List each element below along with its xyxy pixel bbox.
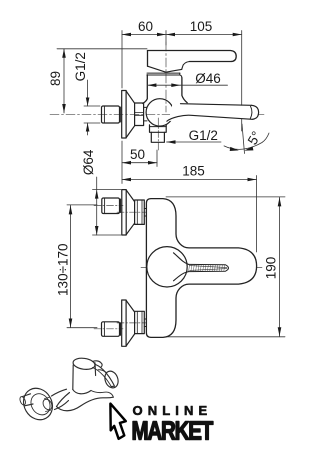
dim 185 [122,176,257,253]
sketch stub pipe [23,394,34,406]
svg-text:G1/2: G1/2 [189,128,218,143]
svg-text:Ø64: Ø64 [81,149,96,175]
collar top (side view) [147,72,180,74]
dim 60/105 dimension line [122,31,242,132]
spout (side view) white cover over ball right [168,104,257,122]
bottom hex nut (plan) [135,311,145,333]
centerline top pipe axis [94,205,123,207]
bottom outlet (side view) [150,125,167,133]
hex nut (side view) [135,103,144,126]
lever funnel and blade (plan) [174,253,189,265]
centerline plan view horizontal [141,266,263,268]
escutcheon cone (side view) [126,91,135,138]
centerline top inlet axis [117,211,154,213]
extension line wall plane [121,31,123,89]
dim 190 [166,197,285,337]
svg-text:190: 190 [264,257,279,280]
wall pipe (side view) [102,106,120,123]
dim 50 [122,141,157,184]
bottom escutcheon cone (plan) [126,300,135,346]
sketch body belly [73,390,91,394]
sketch spout sweep outer [57,397,114,411]
svg-text:G1/2: G1/2 [73,52,88,81]
dim Ø46 [147,84,227,86]
cylinder edges (side view) [143,75,148,104]
top hex nut (plan) [135,200,145,224]
sketch body cylinder top rim [72,357,95,371]
sketch lever blade top [96,365,115,387]
extension line aerator axis [241,31,243,132]
sketch lever base knob [93,361,103,367]
leader G1/2 outlet [167,141,222,143]
sketch spout hook [91,391,113,398]
handle lever (side view) [148,51,237,62]
logo cursor arrow [110,404,125,439]
lever blade inner lines [190,266,228,271]
dim 89 vertical [57,49,147,113]
faucet body (plan view outline) [146,199,256,338]
escutcheon disc (side view) [122,91,126,139]
svg-text:60: 60 [138,19,153,34]
sketch escutcheon outer disc [18,383,58,425]
bottom escutcheon disc (plan) [122,300,126,346]
sketch body cylinder sides [73,363,96,390]
centerline handle axis [165,42,167,112]
centerline dome vertical [166,243,168,292]
top wall pipe (plan) [102,198,120,214]
sketch right escutcheon blob [103,369,121,389]
centerline bottom pipe axis [94,328,123,330]
top escutcheon cone (plan) [126,190,134,235]
dim G1/2 pipe diameter [84,80,100,135]
svg-text:MARKET: MARKET [132,416,214,445]
handle grip underside [148,66,182,72]
top escutcheon disc (plan) [122,190,126,235]
dim Ø64 [93,177,122,235]
top stub [144,209,146,217]
dim 5 degrees [242,124,245,154]
sketch lever blade underside [93,368,112,387]
spout outline (side view) [181,104,252,106]
centerline bottom inlet axis [117,322,154,324]
arrows 60/105 [122,33,242,37]
centerline horizontal (side view axis) [50,113,264,115]
handle dome circle (plan) [147,247,187,287]
svg-text:105: 105 [190,19,213,34]
centerline outlet axis [157,118,159,151]
sketch arm to body [52,389,69,409]
neck nut-to-ball [144,107,147,121]
svg-text:185: 185 [182,164,205,179]
svg-text:50: 50 [130,147,145,162]
sketch hub nut [41,398,54,412]
svg-text:Ø46: Ø46 [195,71,221,86]
bottom wall pipe (plan) [102,322,120,337]
lever blade hatching [189,265,225,271]
ball valve body (side view) [146,99,173,126]
sketch escutcheon cone face [27,390,54,418]
svg-text:5°: 5° [245,129,264,148]
extension line handle axis top [165,31,167,46]
aerator inner line at tip [250,106,252,119]
svg-text:130÷170: 130÷170 [56,243,71,295]
bottom stub [144,319,146,327]
dim 130÷170 [67,205,97,328]
svg-text:89: 89 [48,71,63,86]
